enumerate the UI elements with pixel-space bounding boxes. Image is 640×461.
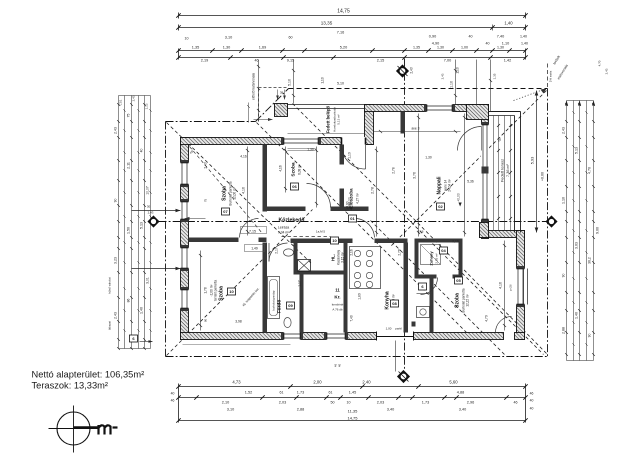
svg-text:1,35: 1,35: [192, 46, 199, 50]
hall top wall: [267, 207, 306, 212]
svg-text:5,13 m²: 5,13 m²: [337, 114, 341, 124]
svg-text:2,19: 2,19: [201, 59, 208, 63]
roof step diagonal: [256, 89, 289, 122]
svg-text:5,36: 5,36: [467, 180, 474, 184]
vertical section axis: [404, 59, 406, 371]
inner dim SE vertical 2: [504, 241, 506, 331]
svg-text:1,40: 1,40: [520, 35, 527, 39]
partition szoba2 eloszoba: [340, 145, 345, 165]
window left wall 3: [180, 248, 189, 269]
svg-text:8,08 m²: 8,08 m²: [298, 164, 302, 175]
svg-text:05: 05: [456, 278, 461, 283]
svg-text:3,10: 3,10: [225, 36, 232, 40]
svg-text:1,40: 1,40: [575, 312, 579, 319]
svg-text:parkl: parkl: [395, 327, 402, 331]
svg-text:9,15: 9,15: [287, 59, 294, 63]
left arrow 2: [132, 268, 181, 270]
north symbol circle: [57, 412, 90, 445]
svg-text:2,43: 2,43: [562, 127, 566, 134]
roof outline right edge: [547, 89, 549, 357]
room2 inner dim: [285, 147, 287, 193]
svg-text:HL.: HL.: [331, 254, 336, 261]
top extension line x455: [455, 60, 457, 105]
svg-text:1,78: 1,78: [204, 287, 208, 293]
inner dim nappali vertical: [418, 114, 420, 237]
svg-text:14,75: 14,75: [347, 416, 358, 421]
bathtub: [268, 277, 280, 319]
svg-text:2,11: 2,11: [127, 162, 131, 169]
door arc furdo: [269, 243, 288, 262]
svg-text:Zuhany: Zuhany: [429, 251, 434, 266]
svg-text:7,15: 7,15: [249, 230, 256, 234]
svg-text:2,10: 2,10: [222, 401, 229, 405]
svg-text:3,76: 3,76: [413, 172, 417, 179]
svg-text:40: 40: [530, 407, 534, 411]
door arc entry eloszoba: [342, 145, 366, 169]
roof hip from top-right corner: [391, 91, 547, 247]
roof outline left edge: [165, 122, 167, 357]
long hip porch to bottom-right corner: [293, 104, 544, 355]
svg-text:4,88: 4,88: [457, 391, 464, 395]
partition lower left vertical: [263, 243, 268, 333]
svg-text:0,90: 0,90: [429, 35, 436, 39]
roof outline top-right edge: [289, 88, 548, 90]
roof outline top-left edge: [166, 121, 256, 123]
outer wall top-left section: [181, 138, 373, 145]
SE corner block: [480, 223, 489, 238]
dashed line above porch: [259, 87, 289, 89]
door leaf right wall: [482, 167, 489, 174]
svg-text:2,88: 2,88: [562, 327, 566, 334]
svg-text:1,10: 1,10: [456, 67, 460, 73]
Kamra number box: [419, 283, 427, 290]
terrace dim line d: [510, 116, 512, 231]
svg-text:2,43: 2,43: [410, 67, 414, 73]
svg-text:90: 90: [114, 199, 118, 203]
terrace dim line c: [504, 116, 506, 231]
door arc nappali terrace: [458, 127, 482, 151]
porch extension dim line: [258, 60, 260, 122]
svg-text:3,98: 3,98: [235, 320, 242, 324]
svg-text:1,42: 1,42: [504, 59, 511, 63]
right wall top corner block: [467, 105, 489, 120]
svg-text:2,17: 2,17: [275, 247, 279, 254]
svg-text:2,88: 2,88: [297, 408, 304, 412]
svg-text:3,40: 3,40: [459, 408, 466, 412]
svg-text:CS1: CS1: [119, 99, 123, 105]
svg-text:2,78: 2,78: [392, 167, 396, 174]
svg-text:02: 02: [438, 204, 443, 209]
svg-text:Teraszok: 13,33m²: Teraszok: 13,33m²: [32, 381, 108, 391]
terrace top edge: [489, 111, 521, 113]
svg-text:1,13: 1,13: [145, 103, 149, 109]
svg-text:Fürdő: Fürdő: [277, 300, 283, 314]
svg-text:1,80: 1,80: [358, 293, 362, 300]
porch extension dim line 2: [293, 60, 295, 104]
svg-text:5,13: 5,13: [140, 222, 144, 229]
svg-text:86: 86: [127, 299, 131, 303]
section marker top: [397, 65, 409, 77]
door arc left szoba: [240, 219, 259, 238]
left arrow 1: [132, 210, 181, 212]
svg-text:5,60: 5,60: [449, 380, 458, 385]
Kamra right wall: [430, 279, 434, 333]
svg-text:3,23: 3,23: [114, 257, 118, 264]
svg-text:1,73: 1,73: [297, 391, 304, 395]
svg-text:1,30: 1,30: [425, 156, 432, 160]
roof hip from top-left corner: [167, 123, 313, 265]
terrace outer edge: [514, 116, 516, 233]
svg-text:1,49: 1,49: [251, 247, 258, 251]
svg-text:Szoba: Szoba: [291, 162, 297, 176]
door arc bottom SE: [496, 317, 512, 333]
porch column: [275, 104, 288, 117]
porch dim 38: [277, 90, 279, 100]
bottom dimension chain: [171, 380, 534, 423]
svg-text:40: 40: [171, 392, 175, 396]
svg-text:Kr.: Kr.: [334, 295, 340, 300]
door arc konyha: [357, 219, 375, 238]
inner dim nappali vertical 2: [464, 114, 466, 237]
svg-text:burkolat greslap: burkolat greslap: [272, 290, 276, 310]
svg-text:61: 61: [280, 391, 284, 395]
svg-text:10: 10: [229, 289, 234, 294]
outer wall SE top: [480, 231, 525, 238]
svg-text:3,10: 3,10: [227, 408, 234, 412]
svg-text:4,16: 4,16: [240, 155, 247, 159]
right chain top arrows: [565, 101, 568, 106]
svg-text:1,45: 1,45: [349, 391, 356, 395]
svg-text:40: 40: [530, 399, 534, 403]
svg-text:14,75: 14,75: [337, 9, 350, 15]
svg-text:46: 46: [530, 392, 534, 396]
svg-text:12,22 m²: 12,22 m²: [466, 294, 470, 307]
svg-text:7,34 m²: 7,34 m²: [278, 231, 290, 235]
svg-text:+0,00: +0,00: [457, 193, 461, 202]
svg-text:4,70: 4,70: [588, 167, 592, 174]
washbasin: [284, 249, 294, 256]
svg-text:40: 40: [469, 35, 473, 39]
svg-text:1,10: 1,10: [562, 197, 566, 204]
window sill lines room2: [288, 148, 316, 150]
svg-text:előtető határvonala: előtető határvonala: [252, 73, 256, 100]
valley diagonal center to bottom-right: [371, 221, 505, 355]
top dimension chain: [176, 9, 528, 63]
svg-text:4,27 m²: 4,27 m²: [356, 193, 360, 204]
svg-text:08: 08: [392, 301, 397, 306]
svg-text:5,93: 5,93: [531, 157, 535, 164]
outer wall left: [181, 138, 189, 340]
outer wall bottom seg5: [515, 333, 525, 340]
outer wall right upper: [482, 105, 489, 239]
svg-text:46: 46: [171, 399, 175, 403]
inner dim left room3 vertical: [200, 251, 202, 331]
hall bottom wall: [291, 239, 353, 244]
svg-text:2,96: 2,96: [467, 401, 474, 405]
svg-text:10,07: 10,07: [146, 186, 150, 195]
svg-text:04: 04: [441, 248, 446, 253]
secondary hip top-left wall corner: [190, 147, 263, 234]
svg-text:7,00: 7,00: [444, 59, 451, 63]
valley diagonal from roof step: [257, 123, 471, 337]
svg-text:1a,M 5: 1a,M 5: [316, 230, 326, 234]
svg-text:1,30: 1,30: [497, 46, 504, 50]
svg-text:+0,00: +0,00: [541, 172, 545, 181]
svg-text:1,52: 1,52: [245, 391, 252, 395]
svg-text:2,16: 2,16: [418, 230, 424, 234]
outer wall bottom seg3: [346, 333, 377, 340]
svg-text:1,35: 1,35: [493, 73, 497, 79]
svg-text:2,16: 2,16: [350, 249, 354, 255]
terrace dim line b: [498, 116, 500, 231]
dotted leader to roof corner: [514, 90, 544, 101]
svg-text:06: 06: [292, 184, 297, 189]
svg-text:±0,00: ±0,00: [346, 201, 350, 209]
svg-text:Közlekedő: Közlekedő: [279, 218, 305, 224]
svg-text:4,16: 4,16: [242, 187, 246, 194]
svg-text:60: 60: [289, 36, 293, 40]
HL closet walls: [294, 243, 298, 273]
door arc hall to szoba2: [307, 184, 331, 208]
boiler box: [298, 260, 311, 272]
svg-text:2,05 m²: 2,05 m²: [435, 253, 439, 263]
svg-text:ave 3: ave 3: [411, 127, 419, 131]
svg-text:61: 61: [329, 391, 333, 395]
window left wall 4: [180, 290, 189, 309]
Furdo Kr divider: [300, 275, 304, 333]
svg-text:9,00: 9,00: [596, 227, 600, 234]
svg-text:A 76 db: A 76 db: [332, 308, 343, 312]
svg-text:12,00 m²: 12,00 m²: [233, 187, 237, 200]
outer wall bottom seg4: [414, 333, 504, 340]
hall dim box 2: [245, 245, 265, 252]
svg-text:pr,56: pr,56: [509, 284, 513, 291]
svg-text:7,36 m²: 7,36 m²: [506, 163, 510, 177]
horizontal section axis: [159, 221, 548, 223]
door arc zuhany: [421, 278, 438, 295]
svg-text:1,30: 1,30: [437, 46, 444, 50]
SE window outer frame: [523, 269, 525, 305]
window top-left wall: [284, 137, 319, 145]
porch edge lines: [288, 104, 365, 106]
wc bowl: [284, 318, 291, 328]
svg-text:40: 40: [140, 149, 144, 153]
svg-text:10: 10: [347, 401, 351, 405]
svg-text:46: 46: [514, 401, 518, 405]
svg-text:3,15 m²: 3,15 m²: [341, 252, 345, 263]
roof edge extension up: [547, 64, 549, 89]
svg-text:külső vakolat: külső vakolat: [108, 277, 112, 293]
svg-text:30: 30: [147, 205, 151, 209]
window left wall 2: [180, 202, 189, 220]
porch floor line: [288, 133, 365, 135]
svg-text:Szoba: Szoba: [455, 293, 461, 308]
Zuhany shower walls: [415, 239, 419, 279]
inner dim room2 vertical: [316, 147, 318, 208]
svg-text:1,00: 1,00: [386, 327, 392, 331]
window left wall 1: [180, 163, 189, 185]
svg-text:2,78: 2,78: [398, 249, 402, 255]
roof outline bottom edge: [166, 356, 548, 358]
svg-text:1,40: 1,40: [521, 42, 528, 46]
svg-text:Konyha: Konyha: [385, 291, 391, 310]
terrace glass door right wall: [481, 125, 489, 220]
kitchen hob circles: [354, 250, 360, 256]
inner dim eloszoba vertical: [376, 147, 378, 237]
svg-text:Leírása: Leírása: [278, 226, 289, 230]
svg-text:2,03: 2,03: [279, 401, 286, 405]
left dimension chains: [108, 95, 181, 350]
svg-text:07: 07: [223, 209, 228, 214]
svg-text:kemlérté: kemlérté: [332, 303, 344, 307]
svg-text:2,43: 2,43: [114, 127, 118, 134]
svg-text:1,40: 1,40: [140, 307, 144, 314]
svg-text:38: 38: [280, 91, 284, 95]
svg-text:4,16: 4,16: [499, 282, 503, 289]
north symbol cross: [73, 406, 75, 453]
svg-text:1,73: 1,73: [422, 401, 429, 405]
svg-text:7,40: 7,40: [350, 315, 354, 321]
partition between top rooms: [263, 145, 268, 212]
svg-text:2,43: 2,43: [204, 162, 208, 168]
inner dim SE vertical: [432, 287, 434, 331]
short ridge line: [282, 236, 331, 238]
section marker bottom: [398, 371, 410, 383]
svg-text:01: 01: [350, 216, 355, 221]
porch arrow dim: [254, 119, 273, 121]
window top-right wall: [427, 104, 453, 112]
svg-text:50: 50: [331, 401, 335, 405]
svg-text:2,43: 2,43: [441, 73, 445, 79]
svg-text:2,78: 2,78: [371, 187, 375, 194]
svg-text:24,04 m²: 24,04 m²: [448, 179, 452, 192]
svg-text:1,10: 1,10: [450, 81, 454, 88]
svg-text:7,40: 7,40: [497, 35, 504, 39]
svg-text:2,43: 2,43: [148, 211, 154, 215]
svg-text:5,10: 5,10: [288, 79, 292, 86]
entry door opening: [342, 137, 366, 145]
inner dim room1 vertical: [247, 147, 249, 236]
svg-text:1,40: 1,40: [504, 21, 513, 26]
partition eloszoba nappali stub: [401, 112, 406, 134]
svg-text:40: 40: [338, 364, 342, 368]
kamra corner mark: [412, 322, 416, 327]
svg-text:1,10: 1,10: [321, 77, 325, 83]
svg-text:2,19: 2,19: [452, 240, 459, 244]
svg-text:09: 09: [288, 303, 293, 308]
svg-text:2,15: 2,15: [377, 59, 384, 63]
svg-text:1,30: 1,30: [307, 148, 314, 152]
svg-text:2,43: 2,43: [114, 312, 118, 319]
svg-text:2,43: 2,43: [605, 68, 609, 74]
svg-text:Szoba: Szoba: [219, 286, 225, 301]
svg-text:2,00: 2,00: [313, 380, 322, 385]
svg-text:2,03: 2,03: [377, 401, 384, 405]
svg-text:lábazat: lábazat: [108, 321, 112, 330]
porch step wall: [365, 105, 374, 145]
svg-text:90: 90: [562, 274, 566, 278]
outer wall top-right section: [365, 105, 489, 112]
porch canopy dashed outline: [258, 89, 260, 124]
outer wall bottom seg1: [181, 333, 284, 340]
svg-text:terralit parketta: terralit parketta: [214, 280, 218, 301]
roof hip from bottom-left corner: [167, 210, 313, 356]
kitchen counter: [350, 247, 381, 289]
terrace dim line a: [493, 116, 495, 231]
svg-text:-2,00 m²: -2,00 m²: [210, 285, 214, 297]
Kr right wall: [344, 243, 348, 333]
svg-text:3,01: 3,01: [146, 277, 150, 284]
hall dim 7,15: [185, 218, 206, 220]
svg-text:5,13: 5,13: [575, 147, 579, 154]
shower tray: [421, 245, 441, 265]
svg-text:1% esés: 1% esés: [549, 70, 553, 82]
svg-text:90: 90: [588, 334, 592, 338]
top extension line x476: [476, 60, 478, 105]
svg-text:10: 10: [332, 238, 337, 243]
porch canopy ext line: [248, 103, 250, 123]
svg-text:75: 75: [127, 114, 131, 118]
window SE right wall: [516, 269, 525, 305]
svg-text:5,20: 5,20: [340, 46, 347, 50]
svg-text:4,70: 4,70: [598, 60, 602, 66]
window bottom wall furdo: [284, 332, 301, 340]
svg-text:1,30: 1,30: [223, 46, 230, 50]
svg-text:2,43: 2,43: [132, 95, 136, 101]
svg-text:75: 75: [204, 199, 208, 203]
Kamra shelf line: [417, 293, 430, 295]
svg-text:1,69: 1,69: [259, 46, 266, 50]
svg-text:11: 11: [335, 288, 340, 293]
svg-text:Fedett belépő: Fedett belépő: [326, 105, 331, 133]
bottom door dim line: [377, 336, 414, 338]
svg-text:Fedett terasz: Fedett terasz: [500, 159, 505, 182]
right dimension chains: [531, 54, 609, 360]
washing machine: [417, 307, 430, 318]
svg-text:7,16: 7,16: [337, 31, 344, 35]
svg-text:Szoba: Szoba: [222, 186, 228, 201]
svg-text:2,40: 2,40: [362, 380, 371, 385]
svg-text:3,40: 3,40: [387, 408, 394, 412]
bottom-left plinth line: [183, 344, 291, 346]
svg-text:11,35: 11,35: [348, 409, 358, 414]
svg-text:4,73: 4,73: [232, 380, 241, 385]
section marker left: [148, 216, 159, 227]
svg-text:Nettó alapterület: 106,35m²: Nettó alapterület: 106,35m²: [32, 370, 145, 380]
svg-text:36,2: 36,2: [588, 257, 592, 264]
svg-text:13,35: 13,35: [321, 21, 333, 26]
roof hip from bottom-right corner: [405, 210, 547, 354]
inner dim nappali horizontal: [374, 131, 461, 133]
svg-text:90: 90: [204, 319, 208, 323]
svg-text:3,03: 3,03: [575, 242, 579, 249]
svg-text:4,16: 4,16: [279, 165, 283, 171]
svg-text:5,10: 5,10: [337, 82, 344, 86]
outer wall bottom seg2: [301, 333, 327, 340]
svg-text:1,00: 1,00: [461, 46, 468, 50]
svg-text:1,10: 1,10: [348, 152, 352, 159]
north label m: [99, 425, 111, 435]
top extension line x490: [490, 60, 492, 112]
section marker right: [546, 216, 557, 227]
svg-text:40: 40: [486, 42, 490, 46]
bottom door extension line: [395, 341, 397, 372]
partition left block divider: [189, 238, 239, 243]
outer wall SE right: [517, 231, 525, 340]
left chain bottom box: [130, 335, 138, 342]
svg-text:1,50: 1,50: [127, 227, 131, 234]
svg-text:1,17: 1,17: [298, 280, 302, 287]
